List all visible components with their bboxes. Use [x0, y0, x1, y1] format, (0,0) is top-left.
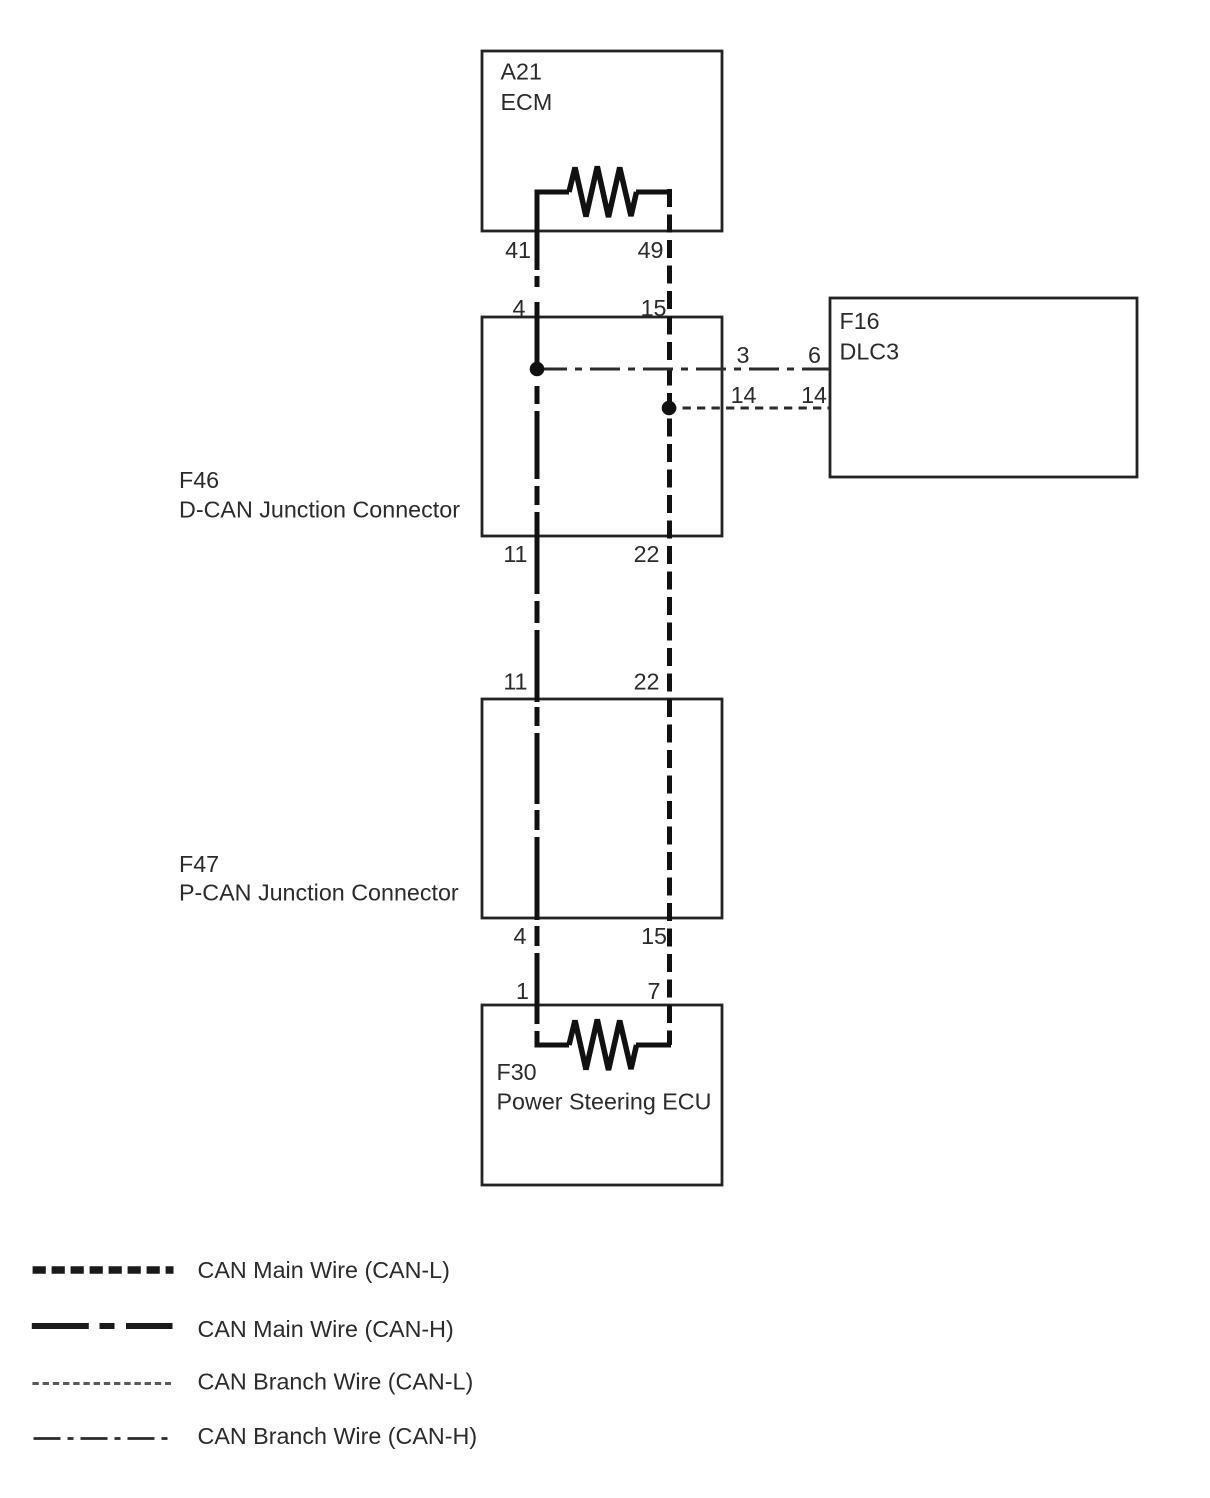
svg-text:CAN Branch Wire (CAN-L): CAN Branch Wire (CAN-L) [198, 1369, 474, 1395]
svg-text:Power Steering ECU: Power Steering ECU [497, 1089, 712, 1115]
svg-text:3: 3 [737, 342, 750, 368]
svg-text:11: 11 [503, 541, 527, 567]
svg-text:F47: F47 [179, 851, 219, 877]
svg-text:F30: F30 [497, 1059, 537, 1085]
svg-text:CAN Main Wire (CAN-L): CAN Main Wire (CAN-L) [198, 1257, 450, 1283]
svg-text:15: 15 [641, 923, 667, 949]
svg-text:F16: F16 [840, 308, 880, 334]
svg-text:ECM: ECM [501, 89, 553, 115]
svg-text:15: 15 [641, 295, 667, 321]
svg-text:22: 22 [634, 541, 660, 567]
svg-text:F46: F46 [179, 467, 219, 493]
svg-text:49: 49 [638, 237, 664, 263]
svg-text:A21: A21 [501, 59, 542, 85]
svg-text:4: 4 [514, 923, 527, 949]
svg-text:6: 6 [808, 342, 821, 368]
svg-text:7: 7 [648, 978, 661, 1004]
svg-text:4: 4 [513, 295, 526, 321]
svg-text:CAN Main Wire (CAN-H): CAN Main Wire (CAN-H) [198, 1316, 454, 1342]
svg-text:11: 11 [503, 669, 527, 695]
svg-text:1: 1 [516, 978, 529, 1004]
svg-text:14: 14 [731, 382, 757, 408]
svg-text:DLC3: DLC3 [840, 339, 900, 365]
svg-text:D-CAN Junction Connector: D-CAN Junction Connector [179, 497, 460, 523]
svg-text:41: 41 [505, 237, 531, 263]
svg-text:CAN Branch Wire (CAN-H): CAN Branch Wire (CAN-H) [198, 1423, 478, 1449]
svg-text:P-CAN Junction Connector: P-CAN Junction Connector [179, 880, 459, 906]
svg-text:22: 22 [634, 669, 660, 695]
svg-text:14: 14 [801, 382, 827, 408]
